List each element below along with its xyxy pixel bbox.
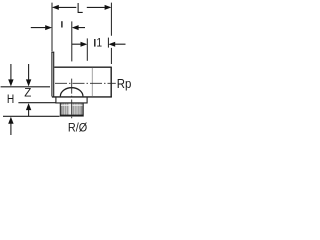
wire H upper stem [10, 64, 12, 80]
node nut dome [60, 88, 83, 97]
wire body right edge [110, 67, 112, 97]
node label l [61, 21, 63, 27]
node arrowheads dimension l1 [81, 42, 88, 47]
wire Z bottom reference line y=102.6 [18, 102, 56, 104]
wire H lower stem [10, 124, 12, 136]
svg-text:Rp: Rp [117, 76, 132, 91]
wire body top edge [54, 66, 111, 68]
node branch axis extension x=71.8 [71, 21, 73, 61]
svg-text:L: L [77, 0, 83, 16]
extension lines group [31, 3, 126, 64]
wire L dimension line [58, 6, 105, 8]
wire l1 dimension tails [72, 43, 126, 45]
node extension line x=108.4 [107, 38, 109, 48]
node extension line x=87.3 [86, 38, 88, 60]
node arrowheads dimension l [45, 25, 52, 30]
node left extension line x=52 [51, 3, 53, 52]
node nut band [56, 97, 87, 103]
node H dimension upper arrow [8, 79, 31, 123]
node arrowheads dimension L [45, 5, 115, 47]
wire nut bottom thick edge [60, 115, 83, 117]
node H dimension lower arrow [8, 117, 13, 124]
node Z dimension lower arrow [26, 103, 31, 110]
fitting body outline [51, 52, 112, 103]
knurled union nut [60, 103, 83, 116]
wire H bottom reference line y=116 [3, 115, 60, 117]
svg-text:Z: Z [24, 87, 31, 100]
wire body bottom edge [52, 96, 112, 98]
wire l dimension tails [31, 27, 85, 29]
node Z dimension upper arrow [26, 79, 31, 86]
svg-text:R/Ø: R/Ø [68, 122, 87, 135]
wire vertical centerline of branch x=71.7 [71, 79, 73, 120]
wire left reference line y=86.8 [1, 86, 50, 88]
node label l1 [94, 39, 96, 47]
node right extension line x=111.4 [110, 3, 112, 64]
wire Z lower stem [28, 110, 30, 116]
node inner thread line [91, 68, 93, 96]
svg-text:H: H [7, 93, 14, 106]
svg-text:1: 1 [96, 37, 102, 50]
wire Z upper stem [28, 64, 30, 80]
node left washer strip [51, 52, 54, 96]
wire horizontal centerline y=83.3 [55, 82, 116, 84]
